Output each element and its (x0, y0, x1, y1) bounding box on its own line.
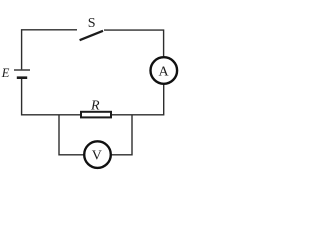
svg-text:R: R (90, 99, 100, 114)
svg-text:V: V (92, 149, 102, 164)
svg-text:S: S (88, 16, 96, 31)
svg-text:E: E (1, 66, 10, 80)
svg-text:A: A (159, 64, 170, 79)
